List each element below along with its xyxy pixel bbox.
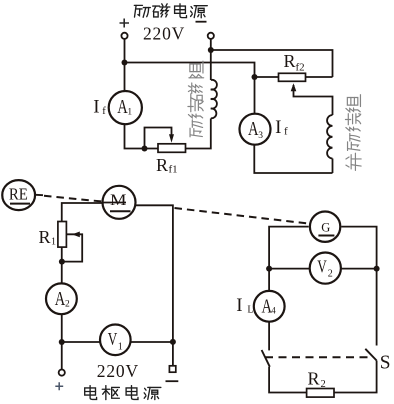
- svg-text:220V: 220V: [97, 361, 139, 381]
- svg-text:RE: RE: [9, 185, 28, 204]
- wire - junction right and down to Rf2 right lead: [211, 50, 333, 77]
- svg-text:f: f: [102, 106, 106, 117]
- resistor R1 (vertical rheostat body): [58, 222, 67, 248]
- R1 wiper arrow head: [72, 232, 80, 238]
- svg-text:f1: f1: [169, 164, 178, 176]
- label 励磁电源 (excitation supply title): [134, 4, 207, 18]
- label - polarity (bottom): [166, 380, 179, 382]
- wire down to + terminal of armature supply: [61, 342, 63, 369]
- svg-text:2: 2: [65, 299, 70, 309]
- svg-text:1: 1: [51, 237, 56, 248]
- wire shunt coil bottom lead: [332, 159, 334, 174]
- label + polarity (top): [120, 19, 130, 28]
- svg-text:M: M: [110, 192, 127, 209]
- switch S dashed gang link: [265, 356, 368, 358]
- terminal + of excitation supply: [121, 33, 127, 39]
- svg-text:2: 2: [321, 379, 326, 390]
- ammeter A3: [240, 114, 271, 145]
- label If (left of A1): [93, 96, 106, 117]
- wire Rf2 wiper down-right to shunt coil top: [294, 85, 333, 115]
- label IL (load current): [236, 295, 253, 316]
- label - polarity (top): [196, 21, 207, 23]
- svg-text:S: S: [380, 351, 391, 373]
- junction node at Rf2/A3: [252, 74, 258, 80]
- junction node at - column: [208, 47, 214, 53]
- junction node at + column: [122, 60, 128, 66]
- label 励磁绕阻 (rotated, gray): [188, 61, 204, 137]
- voltmeter V2: [310, 253, 341, 284]
- wire from + junction right then down to Rf2/A3 node: [125, 63, 255, 78]
- wire V1 to bottom-right node: [130, 341, 173, 343]
- svg-text:R: R: [156, 155, 168, 175]
- junction node at R1 wiper return: [59, 259, 65, 265]
- inductor: motor field winding (left coil): [211, 80, 217, 118]
- dashed shaft coupling RE to M: [44, 196, 102, 202]
- svg-text:L: L: [247, 305, 253, 316]
- svg-text:V: V: [317, 257, 327, 277]
- junction node at Rf1 left lead: [142, 146, 148, 152]
- wire node to Rf2 left lead: [255, 76, 279, 78]
- switch S right blade: [365, 349, 376, 361]
- wire R2 right up to right rail: [334, 361, 377, 393]
- wire Rf2 right lead: [306, 76, 333, 78]
- wire G left to left rail down to A4: [269, 227, 309, 291]
- svg-text:1: 1: [118, 341, 123, 352]
- label R1: [39, 227, 57, 248]
- wire node down to A3 top: [254, 77, 256, 114]
- inductor: generator shunt winding (right coil): [327, 115, 332, 159]
- RE shaft stub: [36, 194, 43, 196]
- label If (right of A3): [275, 117, 288, 138]
- label 电枢电源 (armature supply title): [85, 386, 161, 400]
- Rf1 wiper arrow head: [169, 134, 174, 143]
- resistor Rf2 (rheostat body): [279, 73, 306, 81]
- wire Rf1 right lead up to field coil bottom: [186, 119, 211, 149]
- svg-text:2: 2: [328, 269, 333, 280]
- svg-text:I: I: [93, 96, 99, 117]
- svg-text:3: 3: [258, 131, 263, 141]
- resistor Rf1 (rheostat body): [158, 144, 186, 153]
- label Rf2: [284, 51, 305, 74]
- svg-text:R: R: [39, 227, 51, 247]
- terminal - of excitation supply: [208, 33, 214, 39]
- wire G right to right rail down to switch: [341, 227, 376, 346]
- svg-text:I: I: [275, 117, 281, 138]
- wire A2 bottom to bottom-left node: [61, 314, 63, 342]
- label 并励绕组 (rotated, gray): [345, 95, 361, 171]
- switch S left blade: [262, 350, 270, 367]
- wire switch left pole down then right to R2: [269, 367, 307, 393]
- svg-text:f: f: [284, 126, 288, 138]
- svg-text:A: A: [55, 288, 66, 310]
- wire bottom-left node to V1: [62, 341, 101, 343]
- terminal + of armature supply: [59, 370, 65, 376]
- motor M: [103, 186, 136, 219]
- ammeter A1: [109, 91, 142, 124]
- wire R1 bottom to A2 top: [61, 247, 63, 283]
- generator G: [310, 212, 340, 242]
- svg-text:220V: 220V: [143, 24, 185, 44]
- svg-text:R: R: [284, 51, 296, 71]
- junction node bottom-left: [59, 339, 65, 345]
- ammeter A4: [254, 291, 285, 322]
- svg-text:G: G: [321, 220, 330, 234]
- resistor R2 (load): [307, 389, 334, 398]
- wire - terminal down to field coil top (crosses previous wire): [210, 39, 212, 80]
- label R2: [308, 369, 326, 391]
- wire M left terminal to left rail down to R1: [62, 203, 103, 222]
- wire V2 row left: [269, 268, 309, 270]
- svg-text:R: R: [308, 369, 320, 389]
- wire right rail up to M right terminal: [135, 205, 173, 342]
- dashed shaft coupling M to G: [175, 208, 309, 224]
- label Rf1: [156, 155, 178, 176]
- junction node V2 right: [374, 266, 380, 272]
- junction node bottom-right: [170, 339, 176, 345]
- svg-text:1: 1: [127, 107, 132, 117]
- wire Rf1 wiper return to left lead junction: [145, 128, 172, 149]
- terminal - of armature supply (square): [169, 366, 175, 372]
- voltmeter V1: [100, 325, 131, 356]
- wire A4 bottom to switch left pole: [268, 322, 270, 350]
- wire V2 row right: [341, 268, 377, 270]
- svg-text:4: 4: [271, 305, 276, 315]
- wire R1 wiper loop to rail: [62, 234, 82, 261]
- svg-text:V: V: [108, 329, 118, 349]
- label + polarity (bottom): [55, 382, 63, 390]
- svg-text:I: I: [236, 295, 242, 316]
- wire down to - terminal of armature supply: [172, 342, 174, 366]
- wire A1 bottom then right to Rf1 left lead: [125, 124, 159, 149]
- wire + terminal down to A1: [124, 39, 126, 91]
- wire A3 bottom then right along bottom of field section: [254, 144, 332, 173]
- ammeter A2: [46, 283, 77, 314]
- Rf2 wiper arrow head: [291, 83, 297, 91]
- junction node V2 left: [266, 266, 272, 272]
- rotary encoder RE circle: [2, 180, 35, 210]
- svg-text:f2: f2: [296, 62, 305, 74]
